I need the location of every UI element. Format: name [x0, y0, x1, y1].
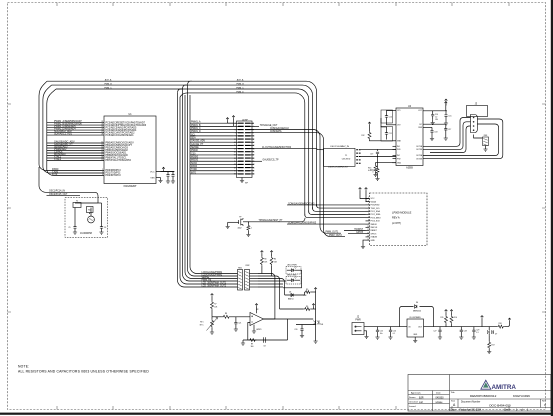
ground below C6 [101, 231, 103, 233]
wire bus line BUS_A [47, 81, 317, 206]
IC U4 body [396, 108, 423, 166]
svg-text:13: 13 [367, 236, 369, 238]
connector J3 pin 4 [473, 129, 475, 131]
wire U4 REF pin [423, 126, 432, 128]
svg-text:8: 8 [368, 220, 369, 222]
wire left bus vertical 2 [43, 85, 104, 173]
wire J1 right stub 13 [251, 160, 254, 162]
oscillator module dashed box [65, 198, 108, 238]
svg-text:PIO3_MISO: PIO3_MISO [371, 217, 382, 219]
svg-text:2: 2 [368, 200, 369, 202]
wire module power pin 2 [366, 191, 370, 202]
ground below C27 [439, 334, 441, 337]
resistor R18 end of rail [497, 325, 505, 328]
oscillator Y1 pad row 1 [356, 149, 360, 151]
svg-text:0: 0 [373, 172, 374, 174]
svg-text:27: 27 [101, 131, 103, 133]
svg-text:PWR: PWR [355, 319, 361, 321]
wire module pin 11 stub [366, 230, 370, 232]
svg-text:Approvals: Approvals [411, 392, 422, 395]
svg-text:SWCLK: SWCLK [371, 227, 378, 229]
capacitor C11 [386, 128, 388, 133]
wire mid bus vertical 3 [183, 88, 238, 281]
wire U1 pin row B7 [47, 157, 104, 159]
wire row1 drop to opamp out [258, 274, 275, 320]
wire R18 up to VCC [505, 321, 510, 327]
wire C10 bottom [387, 122, 393, 125]
rail vertical [315, 292, 317, 341]
svg-text:D4: D4 [289, 292, 291, 294]
svg-text:PWM_FB: PWM_FB [202, 279, 212, 281]
svg-text:OUT1A: OUT1A [416, 145, 423, 148]
capacitor C19 [377, 149, 379, 151]
wire network row 3 through [250, 278, 259, 280]
svg-text:PB7/XTAL2/TOSC2/PCI: PB7/XTAL2/TOSC2/PCI [106, 159, 132, 162]
svg-text:K9GH-D496: K9GH-D496 [513, 394, 530, 398]
svg-text:Date:: Date: [451, 408, 457, 411]
wire J1 out row 4 to bus and down [251, 133, 345, 237]
wire U1 VCC pin [156, 171, 174, 173]
wire U4 RC pin [423, 123, 446, 125]
power VCC pullup 1 [261, 251, 264, 254]
LED D3 dashed box [286, 277, 301, 285]
wire left bus drop to oscillator [39, 167, 98, 203]
svg-text:0.1: 0.1 [476, 332, 478, 334]
wire Q1 gate to ground [228, 221, 239, 223]
LED D3 [292, 279, 294, 282]
resistor R6 row [304, 308, 312, 311]
svg-text:Document Number: Document Number [461, 400, 481, 403]
wire J2 pin1 out [364, 326, 407, 328]
svg-text:C5: C5 [68, 227, 70, 229]
wire module pin 12 stub [366, 233, 370, 235]
svg-text:R18: R18 [498, 323, 501, 325]
wire J1 left pin 16 [234, 170, 239, 172]
svg-text:COM/CAP/CLK/MOSI/RX63: COM/CAP/CLK/MOSI/RX63 [288, 222, 317, 225]
svg-text:J1-OUT/GAUGE/MISO/TX63: J1-OUT/GAUGE/MISO/TX63 [262, 146, 292, 149]
capacitor C27 [439, 327, 441, 328]
svg-text:C6: C6 [104, 227, 106, 229]
wire mid bus vertical 5 [188, 84, 238, 276]
resistor R11 at testpoint [247, 222, 249, 225]
svg-text:14: 14 [367, 239, 369, 241]
wire Y1 left tap [321, 149, 324, 151]
wire J3 pin2 loop [423, 122, 471, 150]
wire U1 pin row A6 [47, 134, 104, 136]
svg-text:OUT2A: OUT2A [416, 154, 423, 157]
wire mid bus vertical 1 top curve [178, 89, 183, 92]
svg-text:NOTE:: NOTE: [18, 364, 29, 368]
svg-text:19: 19 [101, 159, 103, 161]
resistor network RN3 [483, 137, 489, 146]
power VCC output 1 [445, 310, 448, 313]
ground below RN3 [485, 146, 487, 150]
svg-text:Sheet: Sheet [504, 408, 510, 411]
svg-text:LCD_300R/PWM_OUT2: LCD_300R/PWM_OUT2 [202, 285, 227, 287]
wire module pin 13 stub [366, 236, 370, 238]
oscillator Y1 pad row 4 [356, 159, 360, 161]
wire module pin 2 stub [366, 201, 370, 203]
wire J1 right stub 4 [251, 132, 254, 134]
svg-text:R3: R3 [264, 259, 266, 261]
svg-text:s/case: s/case [436, 401, 444, 404]
wire J1 row 12 feed [190, 157, 234, 159]
wire U1 pin row B6 [47, 155, 104, 157]
wire R6 to rail [311, 308, 316, 310]
svg-text:COM/GAUGE/MISO/TX63: COM/GAUGE/MISO/TX63 [288, 202, 315, 205]
svg-text:R4: R4 [274, 259, 276, 261]
svg-text:LCD_300R/PWM_OUT1: LCD_300R/PWM_OUT1 [202, 282, 227, 284]
ground at Q1 gate [226, 227, 230, 229]
svg-text:RN3: RN3 [484, 135, 487, 137]
wire U4 left pin CP1 [393, 110, 397, 112]
ground below J1 [240, 181, 244, 183]
svg-text:LP009 MODULE: LP009 MODULE [392, 211, 412, 215]
wire U1 pin row A3 [47, 127, 104, 129]
wire J1 row 5 feed [190, 135, 234, 137]
wire mid bus vertical 6 [190, 95, 238, 274]
wire J1 right stub 8 [251, 144, 254, 146]
LED D7 power indicator [488, 327, 490, 330]
wire U1 pin row B1 [47, 142, 104, 144]
svg-text:PWM_B: PWM_B [104, 84, 112, 86]
resistor R5 [305, 291, 312, 294]
capacitor C15 [445, 111, 447, 115]
svg-text:C27: C27 [433, 331, 436, 333]
svg-text:C21: C21 [238, 323, 241, 325]
svg-text:TP/GAUGE_OUT: TP/GAUGE_OUT [260, 124, 278, 127]
capacitor C20 on branch [301, 325, 303, 327]
svg-text:PIO0/RXD: PIO0/RXD [371, 205, 380, 207]
page edge shadow right [551, 0, 553, 416]
wire J1 out row 9 to oscillator [251, 149, 321, 150]
wire J1 row 17 feed [190, 173, 234, 175]
svg-text:26: 26 [101, 129, 103, 131]
connector J1 pin pads row 8 [238, 144, 251, 146]
power VCC at rail top [314, 288, 317, 291]
wire U4 left pin PH2 [393, 158, 397, 160]
wire J1 left pin 12 [234, 157, 239, 159]
wire J3 pin1 loop [423, 118, 471, 147]
power VCC at op-amp [255, 304, 258, 307]
wire left bus vertical 1 [39, 81, 104, 170]
svg-text:curt: curt [419, 401, 423, 404]
wire mid bus vertical 3 top curve [183, 85, 188, 88]
wire U1 pin row B8 [47, 160, 104, 162]
wire module pin 10 stub [366, 226, 370, 228]
wire J1 row 1 feed [190, 122, 234, 124]
svg-text:PWM_OUT1: PWM_OUT1 [326, 232, 339, 234]
svg-text:OSC/CLK4MHZ_IN: OSC/CLK4MHZ_IN [330, 146, 349, 148]
wire J3 shell to RN3 [474, 135, 483, 139]
svg-text:XTALIN: XTALIN [371, 236, 378, 239]
wire U1 VSS pin [156, 177, 161, 179]
wire R3 to row1 [261, 266, 263, 274]
svg-text:OUT1B: OUT1B [416, 149, 423, 151]
ground below C18 [431, 136, 433, 139]
svg-text:1: 1 [251, 228, 252, 230]
svg-text:COM/GAUGE/CLK: COM/GAUGE/CLK [270, 127, 290, 130]
svg-text:24: 24 [101, 124, 103, 126]
connector J1 pin pads row 16 [238, 170, 251, 172]
wire bus line BUS_C [56, 89, 309, 213]
svg-text:R15: R15 [440, 317, 443, 319]
svg-text:GND: GND [371, 240, 376, 242]
svg-text:4002: 4002 [238, 227, 242, 229]
resistor R10 in oscillator [87, 207, 94, 213]
capacitor C1 at U1 [167, 172, 169, 175]
wire feedback row left end [242, 340, 244, 343]
wire J1 right stub 3 [251, 129, 254, 131]
capacitor C21 [235, 317, 237, 320]
wire U1 pin row B4 [47, 150, 104, 152]
wire LED D3 stubs [287, 279, 292, 281]
wire J1 row 2 feed [190, 125, 234, 127]
junction dot at R11 [248, 221, 249, 222]
connector J1 pin pads row 6 [238, 138, 251, 140]
ground at J2 [364, 337, 368, 339]
wire module GND pin [363, 240, 366, 246]
ground below C5 [74, 231, 76, 233]
wire U4 GND pin down [392, 162, 396, 164]
connector J3 outer box [467, 106, 488, 117]
connector J1 pin pads row 5 [238, 135, 251, 137]
svg-text:AMITRA: AMITRA [492, 384, 517, 391]
svg-text:IN2: IN2 [397, 155, 400, 157]
connector J1 pin pads row 10 [238, 151, 251, 153]
wire R12 to VBB [370, 139, 393, 142]
svg-text:6: 6 [368, 213, 369, 215]
svg-text:13: 13 [101, 144, 103, 146]
capacitor C25 [377, 327, 379, 328]
svg-text:AUX_A: AUX_A [105, 79, 112, 82]
svg-text:TX01_SCL: TX01_SCL [371, 208, 380, 210]
svg-text:C28: C28 [464, 331, 467, 333]
svg-text:2: 2 [102, 169, 103, 171]
wire J1 row 7 feed [190, 141, 234, 143]
svg-text:VCC: VCC [150, 171, 155, 173]
svg-text:R16: R16 [454, 317, 457, 319]
svg-text:0.05: 0.05 [368, 170, 372, 172]
sense resistor R13 [374, 165, 377, 173]
wire Q1 drain long to bus [243, 218, 305, 222]
connector J1 pin pads row 1 [238, 122, 251, 124]
capacitor C2 at U1 [172, 172, 174, 175]
wire OUT2B loop [423, 119, 503, 159]
wire Y1 to U4 IN1 [361, 148, 396, 150]
TVS diodes D5 [313, 320, 319, 324]
power VCC right of U4 [444, 102, 447, 105]
svg-text:3: 3 [102, 172, 103, 174]
connector J1 pin pads row 3 [238, 129, 251, 131]
power VCC pullup 2 [270, 251, 273, 254]
wire bus to module row 3 [309, 211, 366, 215]
svg-text:17: 17 [101, 154, 103, 156]
svg-text:BJR: BJR [419, 396, 424, 399]
wire module pin 8 stub [366, 220, 370, 222]
ground below R17 [488, 349, 490, 352]
svg-text:11: 11 [367, 229, 369, 231]
wire network row 6 through [250, 286, 259, 288]
svg-text:C15: C15 [448, 116, 451, 118]
svg-text:R17: R17 [492, 345, 495, 347]
svg-text:PIO1_SDA: PIO1_SDA [371, 210, 381, 213]
wire C10 top [387, 110, 393, 113]
module M1 dashed body [370, 193, 428, 246]
wire RT1 top [211, 317, 213, 319]
capacitor C22 feedback [264, 337, 266, 343]
wire J2 pin2 gnd [364, 331, 367, 337]
wire J1 row 6 feed [190, 138, 234, 140]
ground below C25 [377, 334, 379, 337]
svg-text:LED1 PWR: LED1 PWR [287, 265, 297, 267]
wire J1 left pin 3 [234, 129, 239, 131]
wire module power pin 1 [360, 191, 370, 199]
op-amp U2 body [250, 313, 264, 326]
wire U4 left pin IN2 [393, 155, 397, 157]
wire J1 right stub 5 [251, 135, 254, 137]
connector J3 pin 2 [473, 121, 475, 123]
wire J1 out row 3 to bus and down [251, 130, 341, 234]
svg-text:COM/DATA: COM/DATA [270, 130, 282, 133]
svg-text:Checked: Checked [409, 402, 418, 404]
wire J1 bottom ground stub [241, 178, 243, 181]
wire J1 right stub 16 [251, 170, 254, 172]
svg-text:PH2: PH2 [397, 158, 401, 160]
wire U1 pin row A5 [47, 132, 104, 134]
wire J1 left pin 7 [234, 141, 239, 143]
wire bus line BUS_D [180, 93, 305, 216]
wire opamp out to rail [263, 318, 313, 320]
wire J1 row 8 feed [190, 144, 234, 146]
LED D2 dashed box [286, 267, 301, 275]
wire J1 left pin 1 [234, 122, 239, 124]
power VCC at J1 [226, 118, 229, 121]
wire VCC J3 drop [445, 102, 447, 106]
wire J1 right stub 14 [251, 163, 254, 165]
svg-text:REV A: REV A [392, 216, 400, 220]
wire U1 pin row A2 [47, 124, 104, 126]
power VDD at module [365, 188, 368, 191]
svg-text:D7: D7 [495, 334, 497, 336]
ground below U5 [413, 341, 417, 343]
wire J1 left pin 6 [234, 138, 239, 140]
svg-text:9: 9 [368, 223, 369, 225]
connector J1 pin pads row 17 [238, 173, 251, 175]
svg-text:18: 18 [101, 157, 103, 159]
wire C11 link [381, 118, 387, 128]
ground below R13 [375, 172, 377, 175]
ground below C15 [445, 121, 447, 124]
capacitor C29 [473, 327, 475, 328]
wire network row 2 through [250, 275, 259, 277]
wire oscillator internal left [74, 208, 76, 225]
svg-text:L403/CLK4MHZOUT: L403/CLK4MHZOUT [328, 167, 349, 169]
wire feedback left [248, 323, 250, 341]
power VCC at U1 [162, 167, 165, 170]
crystal oscillator circle [88, 216, 95, 223]
wire J1 right row 13 [251, 160, 262, 162]
wire mid bus vertical 4 [185, 95, 238, 279]
wire J1 left pin 10 [234, 151, 239, 153]
wire J1 right stub 11 [251, 154, 254, 156]
connector J1 pin pads row 13 [238, 160, 251, 162]
crystal Y2 body [73, 203, 81, 208]
wire diode row D4 [285, 294, 305, 296]
svg-text:(or DHT): (or DHT) [392, 222, 401, 225]
wire row2 drop to diode row [258, 276, 280, 309]
wire feedback to output [287, 319, 289, 340]
wire J1 right stub 9 [251, 148, 254, 150]
capacitor C18 at REF [431, 127, 433, 130]
svg-text:OSC1/PC14_IN: OSC1/PC14_IN [49, 191, 65, 193]
wire U4 left pin IN1 [393, 145, 397, 147]
svg-text:OUT2B: OUT2B [416, 158, 423, 160]
svg-text:DOC-B494-050: DOC-B494-050 [489, 403, 511, 407]
svg-text:23: 23 [101, 121, 103, 123]
svg-text:RN2: RN2 [246, 265, 250, 267]
capacitor C17 at RC [445, 124, 447, 128]
svg-text:DEMOPCB30K912: DEMOPCB30K912 [470, 394, 497, 398]
wire op-amp output [264, 318, 275, 320]
wire R13 top [376, 163, 393, 165]
wire J1 left pin 14 [234, 163, 239, 165]
svg-text:10u: 10u [380, 333, 383, 335]
oscillator module Y1 body [324, 148, 355, 166]
connector J1 pin pads row 2 [238, 125, 251, 127]
svg-text:PWM_OUT2: PWM_OUT2 [329, 235, 342, 237]
wire module pin 5 stub [366, 210, 370, 212]
wire J1 row 4 feed [190, 132, 234, 134]
company logo triangle [481, 380, 491, 389]
svg-text:12: 12 [101, 142, 103, 144]
svg-text:CP1: CP1 [397, 110, 401, 112]
svg-text:PH1: PH1 [397, 149, 401, 151]
svg-text:C19: C19 [370, 154, 373, 156]
svg-text:U5 LM78M05: U5 LM78M05 [409, 317, 420, 319]
power VDD output 2 [450, 310, 453, 313]
oscillator Y1 pad row 2 [356, 152, 360, 154]
svg-text:Issued: Issued [409, 406, 416, 408]
wire bus line BUS_B [52, 85, 313, 209]
ground at feedback row end [241, 343, 245, 345]
svg-text:4: 4 [102, 174, 103, 176]
svg-text:R6: R6 [306, 306, 308, 308]
wire bus to module row 2 [313, 207, 366, 211]
wire module pin 3 stub [366, 204, 370, 206]
transistor Q1 testpoint [239, 218, 243, 226]
regulator U5 body [407, 319, 424, 337]
resistor network RN1 body [238, 270, 243, 291]
wire U4 left pin PH1 [393, 148, 397, 150]
svg-text:C18: C18 [434, 132, 437, 134]
svg-text:1: 1 [368, 197, 369, 199]
power VDD near rail [312, 304, 315, 307]
svg-text:C10: C10 [389, 117, 392, 119]
resistor R7 [211, 297, 213, 301]
svg-text:R12: R12 [361, 135, 364, 137]
wire U5 gnd [414, 337, 416, 341]
wire J1 row 11 feed [190, 154, 234, 156]
resistor R14 [377, 157, 379, 168]
svg-text:ALL RESISTORS AND CAPACITORS 0: ALL RESISTORS AND CAPACITORS 0603 UNLESS… [18, 369, 149, 373]
wire long net to module pin 3 [287, 204, 366, 206]
svg-text:PWM_D: PWM_D [236, 91, 244, 93]
connector J1 pin pads row 9 [238, 148, 251, 150]
capacitor C14 at VCP [432, 111, 434, 115]
svg-text:PIO2_SSEL: PIO2_SSEL [371, 214, 381, 216]
resistor R8 [222, 315, 231, 318]
